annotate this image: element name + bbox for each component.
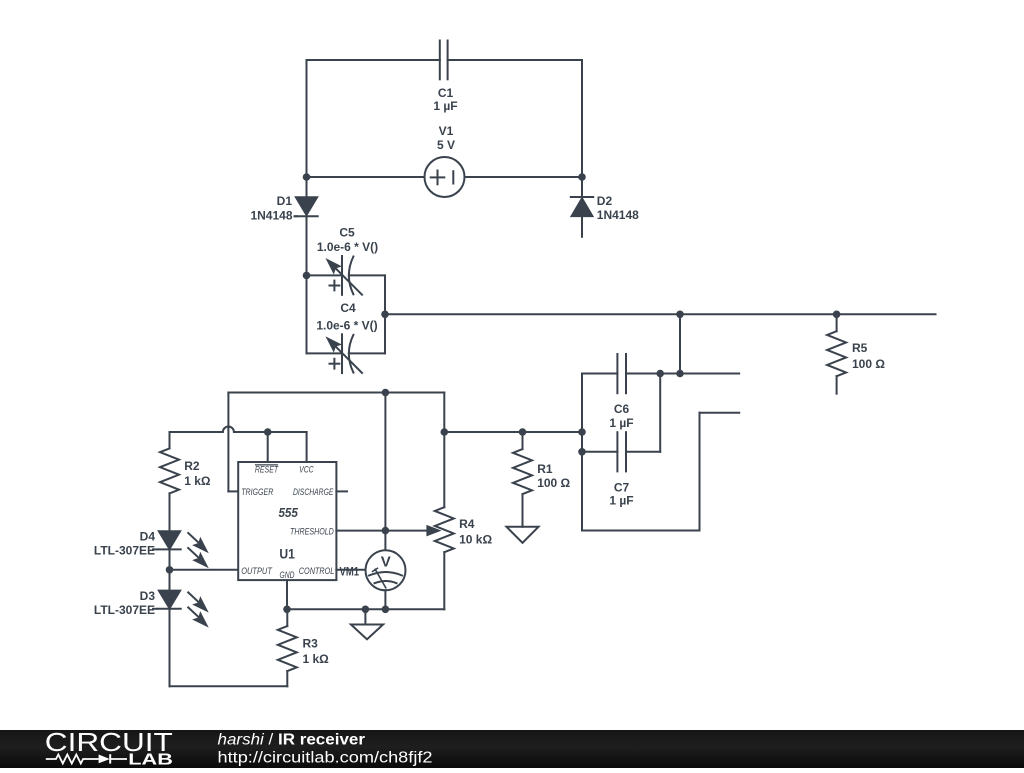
wire C-block2 right vertical xyxy=(699,413,701,531)
resistor R5 xyxy=(827,314,846,393)
svg-text:D4: D4 xyxy=(140,529,156,543)
svg-text:VM1: VM1 xyxy=(340,564,360,578)
wire C5 left xyxy=(307,274,343,276)
diode D2 xyxy=(571,197,593,216)
svg-text:GND: GND xyxy=(280,570,295,581)
wire C-block left edge xyxy=(306,275,308,353)
node dot THRESHOLD-VM1 xyxy=(382,527,390,535)
svg-text:RESET: RESET xyxy=(255,465,279,476)
pin label RESET xyxy=(255,465,279,476)
pin label OUTPUT xyxy=(241,566,273,577)
svg-text:R2: R2 xyxy=(184,459,200,473)
svg-text:R1: R1 xyxy=(537,462,553,476)
pin label DISCHARGE xyxy=(293,487,334,498)
resistor R4 xyxy=(435,432,454,609)
svg-text:D1: D1 xyxy=(277,194,293,208)
svg-text:C7: C7 xyxy=(614,481,630,495)
voltmeter VM1 xyxy=(366,550,406,590)
resistor R1 xyxy=(513,432,532,527)
node dot C7 left xyxy=(578,448,586,456)
node dot C5 left xyxy=(303,272,311,280)
wire D4-D3 xyxy=(169,549,171,590)
LED D3 xyxy=(158,591,180,609)
capacitor C6 xyxy=(617,354,626,393)
wire D3 bottom xyxy=(169,609,171,687)
wire 555-top-left vertical xyxy=(227,393,229,492)
svg-text:555: 555 xyxy=(278,505,298,520)
svg-text:DISCHARGE: DISCHARGE xyxy=(293,487,334,498)
wire stub right xyxy=(700,412,740,414)
wire right vertical xyxy=(581,60,583,197)
wire 555-top-right vertical xyxy=(443,393,445,433)
svg-text:1.0e-6 * V(): 1.0e-6 * V() xyxy=(317,240,378,254)
wire R2-to-RESET with hop xyxy=(170,427,307,433)
wire TRIGGER stub xyxy=(228,490,238,492)
node dot R1wire-left xyxy=(441,428,449,436)
pin overline RESET xyxy=(255,464,278,466)
wire main horizontal xyxy=(385,313,936,315)
svg-text:100 Ω: 100 Ω xyxy=(852,357,885,371)
svg-text:C6: C6 xyxy=(614,402,630,416)
wire bottom-left horizontal xyxy=(170,685,288,687)
wire top-left horizontal xyxy=(307,59,440,61)
svg-text:harshi / IR receiver: harshi / IR receiver xyxy=(218,731,366,748)
wire top-right horizontal xyxy=(448,59,582,61)
wire OUTPUT xyxy=(170,569,239,571)
LED arrow D4 a xyxy=(188,533,207,552)
ground symbol 2 xyxy=(351,625,383,640)
node dot main-C6 xyxy=(676,311,684,319)
wire D1 bottom xyxy=(306,216,308,275)
node dot OUTPUT-LED xyxy=(166,566,174,574)
wire C7 left xyxy=(582,451,617,453)
svg-text:C5: C5 xyxy=(339,226,355,240)
node dot V1-D2 xyxy=(578,173,586,181)
wire C4 right xyxy=(349,352,385,354)
svg-text:V: V xyxy=(381,553,391,570)
wire VM1 top vertical xyxy=(384,393,386,551)
svg-text:1 kΩ: 1 kΩ xyxy=(303,652,330,666)
svg-text:C4: C4 xyxy=(340,301,356,315)
node dot C-block right xyxy=(381,311,389,319)
svg-text:100 Ω: 100 Ω xyxy=(537,476,570,490)
wire VCC stub xyxy=(306,432,308,462)
svg-text:LAB: LAB xyxy=(128,752,173,769)
wire RESET stub xyxy=(267,432,269,462)
wire 555-top horizontal xyxy=(228,392,444,394)
wire ground2 stub xyxy=(364,609,366,624)
node dot GND-R3 xyxy=(283,606,291,614)
node dot 555top xyxy=(382,389,390,397)
dash D1 xyxy=(294,215,298,217)
wire left vertical xyxy=(306,60,308,197)
ground R1 xyxy=(507,527,539,543)
svg-text:1 µF: 1 µF xyxy=(433,99,457,113)
node dot R1 top xyxy=(519,428,527,436)
svg-text:LTL-307EE: LTL-307EE xyxy=(94,544,155,558)
node dot C6-main xyxy=(676,370,684,378)
svg-text:1 µF: 1 µF xyxy=(609,416,633,430)
svg-text:http://circuitlab.com/ch8fjf2: http://circuitlab.com/ch8fjf2 xyxy=(218,749,433,766)
svg-text:D3: D3 xyxy=(140,589,156,603)
dash D4 xyxy=(152,548,158,550)
svg-text:R3: R3 xyxy=(303,637,319,651)
node dot main-R5 xyxy=(833,311,841,319)
svg-text:TRIGGER: TRIGGER xyxy=(241,487,273,498)
wire DISCHARGE stub xyxy=(336,490,347,492)
svg-text:1 kΩ: 1 kΩ xyxy=(184,474,211,488)
svg-text:V1: V1 xyxy=(439,124,454,138)
pin label GND xyxy=(280,570,295,581)
svg-text:1N4148: 1N4148 xyxy=(597,208,639,222)
wire C7 right xyxy=(626,451,660,453)
wire V1 left xyxy=(307,176,425,178)
LED D4 xyxy=(158,531,180,549)
svg-text:U1: U1 xyxy=(279,547,295,562)
logo resistor squiggle xyxy=(46,755,99,764)
node dot V1-D1 xyxy=(303,173,311,181)
svg-text:R5: R5 xyxy=(852,341,868,355)
FOOTER xyxy=(0,729,1024,769)
wire main-to-C6 vertical xyxy=(679,314,681,373)
wire bottom horizontal xyxy=(287,608,444,610)
node dot VM1 bottom xyxy=(382,606,390,614)
svg-text:OUTPUT: OUTPUT xyxy=(241,566,273,577)
pin label CONTROL xyxy=(299,566,335,577)
svg-text:1N4148: 1N4148 xyxy=(250,208,292,222)
pin label THRESHOLD xyxy=(290,527,334,538)
svg-text:5 V: 5 V xyxy=(437,138,455,152)
LED arrow D3 b xyxy=(188,607,207,626)
pin label VCC xyxy=(299,465,314,476)
wire C-block2 bottom xyxy=(582,530,700,532)
dash D3 xyxy=(152,608,158,610)
wire C6 right xyxy=(626,373,739,375)
svg-text:THRESHOLD: THRESHOLD xyxy=(290,527,334,538)
svg-text:1.0e-6 * V(): 1.0e-6 * V() xyxy=(316,319,377,333)
svg-text:VCC: VCC xyxy=(299,465,314,476)
wire C-block right edge xyxy=(384,275,386,353)
LED arrow D3 a xyxy=(188,592,207,611)
capacitor C4 xyxy=(327,334,362,373)
wire C7-to-C6 vertical xyxy=(659,374,661,452)
svg-text:D2: D2 xyxy=(597,194,613,208)
wiper arrow R4 xyxy=(427,526,438,535)
resistor R2 xyxy=(160,432,179,531)
wire VM1 bottom xyxy=(384,590,386,609)
svg-text:10 kΩ: 10 kΩ xyxy=(459,533,492,547)
svg-text:1 µF: 1 µF xyxy=(609,494,633,508)
node dot C6-C7 xyxy=(656,370,664,378)
wire THRESHOLD xyxy=(336,530,428,532)
svg-text:LTL-307EE: LTL-307EE xyxy=(94,603,155,617)
LED arrow D4 b xyxy=(188,548,207,567)
logo diode xyxy=(99,754,127,763)
wire C6 left xyxy=(582,373,617,375)
node dot R1wire-right xyxy=(578,428,586,436)
svg-text:CONTROL: CONTROL xyxy=(299,566,335,577)
svg-text:R4: R4 xyxy=(459,517,475,531)
capacitor C1 xyxy=(440,41,448,80)
wire CONTROL xyxy=(336,569,365,571)
op-amp U1 555 box xyxy=(238,462,336,580)
wire GND stub xyxy=(286,580,288,609)
diode D1 xyxy=(295,197,317,216)
pin label TRIGGER xyxy=(241,487,273,498)
capacitor C5 xyxy=(327,256,362,295)
wire C4 left xyxy=(307,352,343,354)
voltage source V1 xyxy=(425,157,465,197)
node dot ground2 xyxy=(362,606,370,614)
node dot RESET xyxy=(264,428,272,436)
resistor R3 xyxy=(278,609,297,686)
capacitor C7 xyxy=(617,432,626,471)
wire C5 right xyxy=(349,274,385,276)
svg-text:C1: C1 xyxy=(438,86,454,100)
wire D2 bottom xyxy=(581,216,583,237)
wire V1 right xyxy=(465,176,583,178)
wire C-block2 left edge xyxy=(581,374,583,531)
wire R1 horizontal xyxy=(444,431,582,433)
